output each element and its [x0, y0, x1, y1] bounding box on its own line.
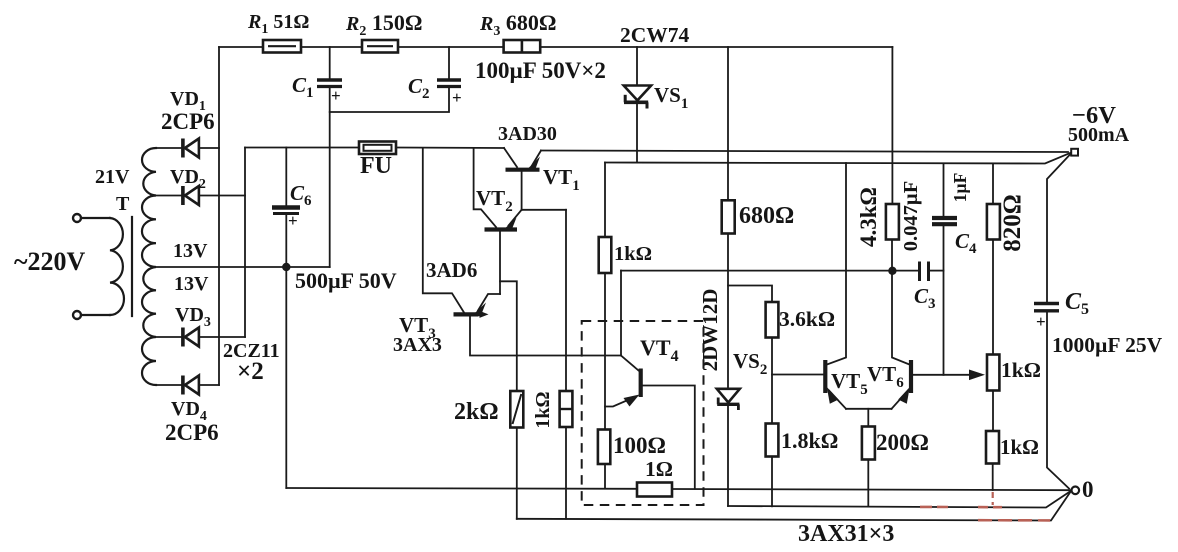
wire VT3 base down and right — [470, 317, 621, 356]
svg-text:13V: 13V — [174, 273, 209, 295]
svg-text:1kΩ: 1kΩ — [1000, 435, 1039, 459]
wire y270 line right of C3 — [930, 270, 944, 272]
svg-text:1.8kΩ: 1.8kΩ — [781, 428, 838, 453]
wire y270 line with C3 — [621, 270, 919, 272]
svg-text:R3 680Ω: R3 680Ω — [479, 10, 556, 39]
resistor 1k rotated-label — [560, 391, 573, 427]
wire top rail R2-R3 — [398, 46, 504, 48]
diode VD2 — [183, 186, 245, 205]
capacitor C3 0.047uF — [920, 262, 929, 282]
transformer T secondary winding — [142, 148, 156, 385]
svg-text:0: 0 — [1082, 477, 1094, 502]
svg-text:+: + — [288, 211, 298, 230]
transformer T primary winding — [110, 218, 124, 315]
svg-text:R2 150Ω: R2 150Ω — [345, 10, 422, 39]
wire 100ohm bottom to line A — [604, 464, 606, 489]
wire 3.6k to 1.8k column — [771, 338, 773, 424]
svg-text:×2: ×2 — [237, 358, 264, 385]
wire 680 bottom to VS2 — [727, 234, 729, 389]
node dot C6 on 13V line — [282, 263, 290, 271]
wire VT2 base down with branch — [499, 232, 501, 295]
wire 200ohm bottom to line B — [867, 460, 869, 507]
wire 1k column down to 100ohm — [604, 273, 606, 430]
wire line C — [517, 493, 1070, 521]
wire line A right part to 0 terminal — [672, 489, 1072, 490]
zener diode VS1 2CW74 — [624, 47, 651, 163]
wire secondary tap to VD3 — [156, 336, 181, 338]
wire 2k column x516 — [516, 428, 518, 519]
terminal -6V square — [1071, 149, 1078, 156]
transistor VT3 3AX3 — [423, 149, 500, 318]
wire VD1/VD4 column x219 — [218, 47, 220, 385]
wire top rail left — [219, 46, 263, 48]
resistor 100ohm — [598, 430, 610, 465]
svg-text:100Ω: 100Ω — [613, 433, 666, 458]
resistor 1k lower — [986, 431, 999, 464]
wire VT1 base down to node — [521, 172, 523, 210]
svg-text:13V: 13V — [173, 240, 208, 262]
svg-text:1Ω: 1Ω — [645, 457, 673, 481]
capacitor C1 — [317, 47, 342, 105]
wire 680 column top — [727, 47, 729, 200]
wire 13V tap line — [156, 266, 330, 268]
wire 1k-rot bottom to line C — [565, 427, 567, 519]
wire 820 down to 1k pot — [992, 240, 994, 355]
wire branch to 2k column — [500, 281, 517, 391]
transformer T primary terminal top — [73, 214, 81, 222]
svg-text:+: + — [452, 88, 462, 107]
wire primary bottom lead — [81, 314, 110, 316]
wire 1k lower bottom to line A — [992, 464, 994, 491]
svg-text:~220V: ~220V — [14, 247, 86, 276]
wire x621 vertical — [620, 271, 622, 356]
svg-text:820Ω: 820Ω — [999, 194, 1026, 252]
svg-text:2CP6: 2CP6 — [165, 420, 219, 445]
transistor VT1 3AD30 — [504, 148, 541, 172]
svg-text:T: T — [116, 193, 130, 215]
dashed box current limiter — [582, 321, 704, 505]
wire secondary tap to VD1 — [156, 147, 181, 149]
svg-text:2CW74: 2CW74 — [620, 23, 690, 47]
wire top rail R1-R2 — [301, 46, 362, 48]
svg-text:500µF 50V: 500µF 50V — [295, 268, 397, 293]
wire lower rail to -6V terminal — [605, 153, 1070, 164]
svg-text:1kΩ: 1kΩ — [1001, 358, 1041, 382]
wire FU rail left — [245, 147, 359, 149]
svg-text:2kΩ: 2kΩ — [454, 399, 499, 425]
svg-text:100µF 50V×2: 100µF 50V×2 — [475, 58, 606, 83]
svg-text:3AX31×3: 3AX31×3 — [798, 521, 894, 547]
svg-text:1µF: 1µF — [950, 173, 970, 203]
fuse FU — [359, 142, 396, 155]
transistor VT6 — [892, 240, 986, 409]
svg-text:3AD30: 3AD30 — [498, 123, 557, 145]
wire line A output common — [286, 487, 637, 490]
svg-text:4.3kΩ: 4.3kΩ — [856, 187, 881, 247]
svg-text:200Ω: 200Ω — [876, 430, 929, 455]
resistor 2k — [510, 391, 523, 428]
resistor 1k upper middle — [599, 237, 612, 273]
diode VD4 2CP6 — [183, 376, 219, 395]
svg-text:3AD6: 3AD6 — [426, 258, 477, 282]
wire VT5 VT6 emitter join — [846, 408, 892, 410]
svg-text:2CP6: 2CP6 — [161, 109, 215, 134]
wire FU rail to VT1 — [396, 147, 504, 150]
svg-text:1kΩ: 1kΩ — [614, 243, 652, 265]
svg-text:+: + — [1036, 312, 1046, 331]
transformer T primary terminal bottom — [73, 311, 81, 319]
wire primary top lead — [81, 217, 110, 219]
transistor VT5 — [772, 163, 846, 409]
wire 1.8k bottom to line B — [771, 457, 773, 507]
transformer T core — [131, 217, 133, 316]
resistor 1k adjust upper — [987, 355, 999, 391]
svg-text:3.6kΩ: 3.6kΩ — [779, 307, 835, 331]
wire C1 column down to 13V line — [329, 87, 331, 268]
transistor VT4 — [605, 356, 641, 407]
wire between 1k resistors — [992, 391, 994, 432]
resistor R2 150ohm — [362, 40, 398, 53]
resistor 820ohm — [987, 204, 1000, 240]
resistor R3 680ohm — [504, 40, 541, 53]
svg-text:1000µF 25V: 1000µF 25V — [1052, 333, 1163, 357]
wire secondary tap to VD2 — [156, 195, 181, 197]
svg-text:1kΩ: 1kΩ — [532, 391, 554, 428]
resistor 4.3k — [886, 204, 899, 240]
wire 200ohm tap — [867, 409, 869, 427]
wire x566 column 1k-rot — [565, 210, 567, 391]
red faded dashes line C — [978, 519, 1050, 522]
capacitor C5 1000uF — [1034, 155, 1070, 489]
red faded dashes line B — [920, 506, 1002, 509]
resistor 680ohm — [722, 200, 735, 233]
wire VD2/VD3 column x245 — [244, 148, 246, 338]
resistor 3.6k — [766, 302, 779, 338]
terminal 0 circle — [1072, 487, 1080, 495]
resistor 200ohm — [862, 427, 875, 460]
capacitor C6 — [272, 148, 300, 231]
resistor R1 51ohm — [263, 40, 301, 53]
capacitor C4 1uF — [932, 164, 957, 375]
svg-text:2DW12D: 2DW12D — [698, 289, 722, 372]
wire main rail VT1 to -6V terminal — [541, 151, 1068, 153]
svg-text:680Ω: 680Ω — [739, 203, 794, 229]
wire C6 column down to line A corner — [285, 214, 287, 489]
zener diode VS2 2DW12D — [717, 389, 740, 506]
diode VD3 2CZ11 — [183, 328, 245, 347]
wire 1k column upper — [604, 163, 606, 238]
capacitor C2 — [437, 47, 462, 107]
wire branch to 3.6k top — [728, 286, 772, 303]
resistor 1ohm inline — [637, 483, 672, 497]
wire secondary tap to VD4 — [156, 384, 181, 386]
svg-text:+: + — [331, 86, 341, 105]
transistor VT2 3AD6 — [474, 149, 522, 232]
wire line B — [728, 492, 1070, 508]
svg-text:0.047µF: 0.047µF — [900, 181, 922, 251]
resistor 1.8k — [766, 424, 779, 457]
svg-text:500mA: 500mA — [1068, 124, 1130, 146]
wire 820 column top — [992, 164, 994, 205]
wire C2 bottom to C1 column — [330, 87, 449, 113]
diode VD1 2CP6 — [183, 139, 219, 158]
svg-text:21V: 21V — [95, 166, 130, 188]
wire top rail R3 to corner — [540, 46, 892, 48]
svg-text:3AX3: 3AX3 — [393, 334, 442, 356]
wire 4.3k column top — [891, 47, 893, 204]
wire node to x566 column — [522, 209, 566, 211]
red faded dash 1k column to line B — [992, 492, 994, 505]
wire VT4 base right and down — [643, 386, 695, 489]
svg-text:FU: FU — [360, 153, 392, 179]
node dot 4.3k column on y270 line — [888, 267, 896, 275]
